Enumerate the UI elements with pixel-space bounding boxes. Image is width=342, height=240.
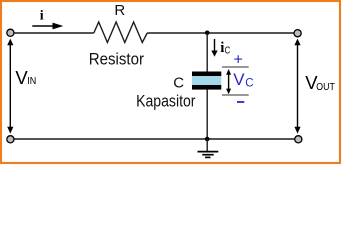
ground (198, 139, 219, 157)
terminal: output top (294, 30, 301, 37)
current arrow iC (211, 39, 217, 57)
svg-text:Resistor: Resistor (89, 50, 144, 69)
terminal: input bottom (7, 136, 14, 143)
bottom bar of Vc marker (222, 94, 249, 96)
node: top junction (205, 31, 210, 36)
svg-text:C: C (173, 75, 184, 92)
top bar of Vc marker (222, 66, 249, 68)
minus sign (237, 101, 244, 103)
svg-text:i: i (40, 8, 44, 23)
terminal: input top (7, 29, 14, 36)
svg-text:C: C (245, 77, 253, 89)
svg-text:V: V (233, 70, 245, 89)
terminal: output bottom (295, 136, 302, 143)
Vin double arrow (7, 39, 13, 134)
double-headed arrow Vc (226, 69, 231, 94)
wire: capacitor branch upper (206, 33, 208, 72)
wire: top left segment (input terminal to resistor) (14, 32, 94, 34)
resistor R (94, 22, 147, 43)
wire: capacitor branch lower (206, 90, 208, 140)
svg-text:+: + (234, 52, 243, 69)
svg-text:C: C (225, 45, 231, 57)
border frame (1, 1, 340, 163)
svg-text:Kapasitor: Kapasitor (136, 92, 196, 111)
capacitor C (192, 72, 221, 90)
node: bottom junction (205, 137, 210, 142)
wire: top middle segment (resistor to junction) (147, 32, 207, 34)
wire: bottom rail (14, 138, 294, 140)
svg-text:IN: IN (27, 75, 36, 87)
svg-text:OUT: OUT (316, 81, 335, 93)
wire: top right segment (junction to output terminal) (207, 32, 294, 34)
current arrow i (32, 23, 63, 30)
svg-text:R: R (114, 2, 125, 19)
Vout double arrow (294, 39, 300, 134)
